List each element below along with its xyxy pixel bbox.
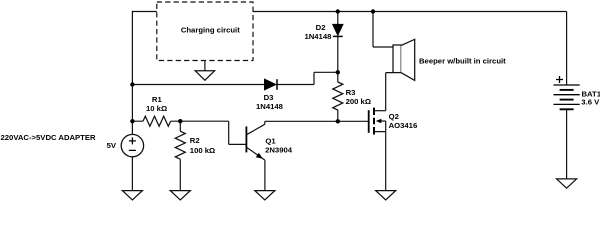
svg-text:5V: 5V (107, 141, 117, 150)
svg-text:2N3904: 2N3904 (265, 146, 293, 155)
svg-text:Beeper w/built in circuit: Beeper w/built in circuit (419, 57, 506, 66)
svg-text:D3: D3 (264, 93, 274, 102)
svg-text:1N4148: 1N4148 (304, 32, 332, 41)
svg-text:R3: R3 (346, 88, 356, 97)
svg-text:1N4148: 1N4148 (256, 102, 284, 111)
svg-text:D2: D2 (316, 23, 326, 32)
svg-text:R1: R1 (152, 95, 163, 104)
svg-text:200 kΩ: 200 kΩ (346, 97, 371, 106)
svg-text:220VAC->5VDC ADAPTER: 220VAC->5VDC ADAPTER (1, 133, 96, 142)
svg-text:100 kΩ: 100 kΩ (190, 146, 215, 155)
svg-text:R2: R2 (190, 136, 200, 145)
svg-text:Q1: Q1 (265, 137, 276, 146)
svg-text:Charging circuit: Charging circuit (181, 25, 240, 34)
svg-text:10 kΩ: 10 kΩ (146, 104, 167, 113)
svg-text:Q2: Q2 (389, 112, 399, 121)
svg-text:AO3416: AO3416 (389, 121, 418, 130)
svg-text:3.6 V: 3.6 V (581, 98, 600, 107)
